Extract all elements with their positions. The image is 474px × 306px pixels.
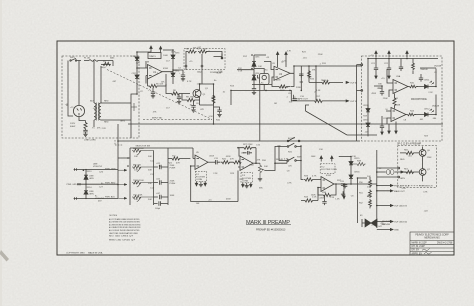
op-amp U3 <box>393 80 408 94</box>
svg-text:PWR. RED: PWR. RED <box>105 183 116 185</box>
ground arrow (C21) <box>375 72 377 79</box>
capacitor C24 <box>374 86 384 96</box>
capacitor C3 (rail) <box>151 88 155 96</box>
svg-text:10K: 10K <box>289 101 293 103</box>
capacitor C22 <box>387 59 391 73</box>
svg-text:OUT A: OUT A <box>350 82 357 85</box>
svg-text:3AG: 3AG <box>110 57 115 60</box>
V+ arrow (U7 a) <box>320 156 322 162</box>
svg-text:SELECTOR SW: SELECTOR SW <box>136 145 151 147</box>
transistor Q7 <box>419 169 426 176</box>
svg-text:MARK III 212P: MARK III 212P <box>412 241 428 244</box>
svg-text:100pf: 100pf <box>155 208 161 210</box>
svg-text:2.2K: 2.2K <box>136 63 141 65</box>
svg-text:47K: 47K <box>200 109 204 111</box>
wire U3 input <box>387 69 393 97</box>
svg-text:1.5K: 1.5K <box>282 60 287 62</box>
feedback loop U5 <box>191 166 238 202</box>
svg-text:100pf: 100pf <box>197 71 203 73</box>
wire U6 output <box>253 162 260 164</box>
wire CR5 rail <box>237 55 266 88</box>
svg-text:OUT JACK A: OUT JACK A <box>394 221 407 224</box>
svg-text:COPYRIGHT 1983 MADE IN US: COPYRIGHT 1983 MADE IN USA <box>66 252 103 255</box>
resistor R34 <box>301 188 321 203</box>
svg-text:RED: RED <box>104 101 109 103</box>
wire xfmr to rectifier taps <box>131 103 137 111</box>
svg-text:CR13: CR13 <box>86 171 92 173</box>
svg-text:CR10: CR10 <box>363 120 369 122</box>
svg-text:PREAMP BD #4150030013: PREAMP BD #4150030013 <box>256 229 286 232</box>
svg-text:100K: 100K <box>311 195 316 197</box>
svg-text:2.2K: 2.2K <box>213 173 218 175</box>
op-amp U4 <box>391 108 406 122</box>
svg-text:1N4148: 1N4148 <box>420 69 428 71</box>
tape out terminal B <box>346 100 349 102</box>
resistor R (line filter) <box>79 116 87 130</box>
resistor R40 <box>408 85 418 88</box>
switch SW2b (boost) <box>287 146 289 148</box>
feedback resistor R36 <box>318 184 336 197</box>
svg-text:BASS 250K: BASS 250K <box>133 147 144 150</box>
wire rectifier rail <box>137 52 151 94</box>
diode CR9 <box>366 109 370 112</box>
svg-text:50K: 50K <box>264 166 268 168</box>
svg-text:220K: 220K <box>383 98 388 100</box>
svg-text:1.5K: 1.5K <box>209 116 214 118</box>
svg-text:2.2K: 2.2K <box>102 128 107 130</box>
svg-text:10K: 10K <box>134 170 138 172</box>
resistor R50 <box>369 177 372 188</box>
ground arrow (C25) <box>381 128 383 135</box>
ground arrow (meter right) <box>395 122 397 134</box>
scan edge shading left <box>0 0 2 306</box>
resistor R10 (rail) <box>212 95 215 104</box>
svg-text:4558: 4558 <box>326 175 332 177</box>
resistor R9 <box>182 94 200 102</box>
svg-text:CH. M. 212P: CH. M. 212P <box>412 246 426 248</box>
wire pot wiper to switch <box>265 146 287 171</box>
svg-text:MID 50K: MID 50K <box>133 165 142 167</box>
wire secondary to rectifier <box>131 94 137 138</box>
transistor Q6 <box>419 150 426 157</box>
svg-text:220K: 220K <box>296 87 302 89</box>
rectifier diode CR2 <box>135 75 139 78</box>
ground (P1) <box>199 182 203 187</box>
svg-text:ALL RESISTORS IN OHMS UNLESS N: ALL RESISTORS IN OHMS UNLESS NOTED <box>109 223 141 226</box>
zener diode CR3 <box>171 55 175 58</box>
svg-text:VIOLET-R: VIOLET-R <box>93 166 103 168</box>
svg-text:1N4148: 1N4148 <box>276 159 284 161</box>
svg-text:MICROPHONE: MICROPHONE <box>411 99 427 101</box>
bus wire lower <box>118 124 360 198</box>
resistor (J1 b) <box>198 50 208 53</box>
power terminal row 1 <box>74 168 118 170</box>
svg-text:FOOTSWITCH: FOOTSWITCH <box>419 185 433 187</box>
junction dots power <box>85 169 86 170</box>
wire plug to switch <box>68 61 79 117</box>
wire LED B <box>415 95 436 115</box>
svg-text:1.5K: 1.5K <box>352 156 357 158</box>
ground (C3) <box>151 96 155 98</box>
capacitor C7b <box>252 88 256 92</box>
svg-text:47K: 47K <box>97 128 101 130</box>
ground (C6) <box>191 110 195 112</box>
power supply dashed enclosure <box>62 56 139 138</box>
capacitor C7 <box>214 107 222 114</box>
transformer secondary wires <box>94 103 131 127</box>
V+ arrow (U2 supply a) <box>276 52 278 67</box>
V+ arrow (U7 b) <box>331 156 333 162</box>
dashed input bd corner <box>115 140 123 145</box>
wire Q1 collector <box>187 84 214 105</box>
ground arrow (mid) <box>343 184 345 199</box>
svg-text:MARK III PREAMP: MARK III PREAMP <box>246 220 290 226</box>
svg-text:50K: 50K <box>148 199 152 201</box>
svg-text:PEAVEY ELECTRONICS CORP: PEAVEY ELECTRONICS CORP <box>415 234 449 237</box>
transformer T1 <box>94 103 96 120</box>
resistor R44 <box>406 113 416 116</box>
V+ arrow (U1 supply) <box>150 46 152 52</box>
scan smudge bottom-left <box>0 250 9 262</box>
connector pins footswitch <box>398 167 400 169</box>
ground arrow (meter mid) <box>388 124 390 134</box>
wire footswitch internal <box>422 147 424 182</box>
svg-text:INPUT BD: INPUT BD <box>152 118 163 120</box>
svg-text:GRN: GRN <box>120 121 125 123</box>
wire regulator output right <box>200 54 223 124</box>
svg-text:SW2: SW2 <box>297 157 302 159</box>
svg-text:1N4148: 1N4148 <box>432 106 440 108</box>
resistor R52 <box>369 199 372 208</box>
capacitor C6 <box>191 102 195 110</box>
dashed diagonal (input board boundary) <box>107 70 212 120</box>
footswitch dashed enclosure <box>398 146 437 188</box>
svg-text:1.5K: 1.5K <box>319 149 324 151</box>
diode CR14 <box>84 191 88 194</box>
regulator box VR1 <box>148 53 161 59</box>
capacitor C15 <box>214 160 221 164</box>
signature squiggles <box>422 249 430 251</box>
svg-text:PWR. GRD: PWR. GRD <box>67 184 78 186</box>
svg-text:MAIN OUT: MAIN OUT <box>394 190 405 193</box>
diode CR6 <box>252 75 256 80</box>
meter board dashed enclosure <box>362 56 443 141</box>
feedback resistor R41 <box>393 94 396 109</box>
connector pins meter <box>361 64 363 66</box>
svg-text:100K: 100K <box>171 52 176 54</box>
svg-text:MERIDIAN MS: MERIDIAN MS <box>424 237 440 240</box>
wire diode clip column <box>339 156 351 184</box>
capacitor C (line) <box>83 130 87 134</box>
wire top row to transformer <box>94 61 113 104</box>
resistor R8 <box>166 84 187 95</box>
out terminal D <box>377 221 393 223</box>
svg-text:R5 10K: R5 10K <box>156 84 164 86</box>
svg-text:4.7K: 4.7K <box>187 81 192 83</box>
ground (P1 pins) <box>195 182 206 186</box>
capacitor C4 <box>173 70 185 79</box>
power terminal row 3 <box>74 197 118 199</box>
capacitor C5 <box>177 94 181 102</box>
svg-text:78M15: 78M15 <box>149 56 156 58</box>
ground (C7b) <box>252 92 256 94</box>
svg-text:47K: 47K <box>312 70 316 72</box>
svg-text:1.5K: 1.5K <box>316 90 321 92</box>
svg-text:GRN: GRN <box>89 194 94 196</box>
power terminal row 2 <box>77 183 118 185</box>
wire bus to footswitch pins <box>377 168 398 177</box>
out terminal B <box>377 190 393 192</box>
relay box K1 <box>260 74 270 85</box>
svg-text:220K: 220K <box>318 54 323 56</box>
wire U7 output <box>334 183 351 185</box>
svg-text:1.5K: 1.5K <box>239 179 244 181</box>
svg-text:120V: 120V <box>70 123 76 125</box>
svg-text:R14 47K: R14 47K <box>280 87 289 89</box>
ground (C4) <box>181 79 185 81</box>
AC plug P1 <box>73 105 84 116</box>
main bus wire <box>128 123 443 125</box>
wire diode column power <box>85 170 87 199</box>
fuse F1 <box>84 60 101 62</box>
wire U4 input <box>386 111 391 124</box>
svg-text:10K: 10K <box>134 199 138 201</box>
LED CR12 <box>425 113 429 117</box>
svg-text:GRN: GRN <box>89 178 94 180</box>
resistor R61 <box>400 170 419 173</box>
LED CR11 <box>425 85 429 89</box>
footswitch connector P1 dashed box <box>195 171 206 181</box>
svg-text:ALL POTS ARE LINEAR UNLESS NOT: ALL POTS ARE LINEAR UNLESS NOTED <box>109 218 140 221</box>
ground (left of R50) <box>341 191 345 196</box>
capacitor C20 <box>343 184 347 188</box>
switch SW2 (bus) <box>287 140 289 142</box>
wire meter left entry <box>357 65 362 141</box>
out terminal E <box>377 229 393 231</box>
EQ row2 pot (MID) <box>132 165 154 171</box>
resistor R39 <box>412 59 415 75</box>
switch SW3 <box>287 160 289 162</box>
wire U2 output <box>290 66 362 101</box>
svg-text:NO. 320 CR16 Q7: NO. 320 CR16 Q7 <box>109 236 133 238</box>
feedback resistor R14 <box>272 73 294 88</box>
V+ arrow (U2 supply b) <box>285 52 287 67</box>
wire U1 input/output <box>146 61 173 84</box>
EQ middle rail <box>153 151 155 206</box>
wire U5 output <box>208 161 214 163</box>
resistor R16 <box>309 81 343 84</box>
capacitor C11 <box>299 74 303 82</box>
svg-text:2.2K: 2.2K <box>428 92 433 94</box>
svg-text:220K: 220K <box>319 197 324 199</box>
svg-text:TAPE A: TAPE A <box>321 79 329 82</box>
EQ ladder left rail <box>118 148 193 205</box>
svg-text:NOTES: NOTES <box>110 215 118 217</box>
sheet border frame <box>57 41 454 255</box>
op-amp U5 <box>195 155 208 170</box>
terminal arrow reverb <box>401 171 404 173</box>
svg-text:1.5K: 1.5K <box>203 48 208 50</box>
svg-text:ALL DIODES 1N4148 UNLESS NOTED: ALL DIODES 1N4148 UNLESS NOTED <box>109 229 140 232</box>
svg-text:100K: 100K <box>249 165 254 167</box>
top rail wire <box>368 59 438 109</box>
svg-text:PUSH: PUSH <box>170 168 176 170</box>
op-amp U1 <box>148 65 163 80</box>
svg-text:CONN: CONN <box>196 179 203 181</box>
svg-text:SP-2 12 BY A PREAMP: SP-2 12 BY A PREAMP <box>397 143 422 146</box>
ground (P3) <box>245 183 249 188</box>
wire U7 to jack rail <box>351 183 377 185</box>
wire U5 input <box>191 159 195 167</box>
svg-text:RED: RED <box>400 159 405 161</box>
svg-text:4558: 4558 <box>163 68 169 70</box>
svg-text:OUT JACK B: OUT JACK B <box>394 205 407 208</box>
svg-text:FOOTSW CONN: FOOTSW CONN <box>321 169 337 171</box>
V+ arrow (meter b) <box>388 51 390 58</box>
resistor R51 <box>369 190 372 199</box>
out terminal A <box>377 185 393 187</box>
resistor (thermal) <box>103 62 111 65</box>
svg-text:PWR. GRN: PWR. GRN <box>105 168 116 170</box>
wire zener rail <box>163 50 173 84</box>
svg-text:4.7K: 4.7K <box>423 191 428 193</box>
capacitor C13 <box>154 180 168 184</box>
svg-text:OUT B: OUT B <box>350 101 357 103</box>
svg-text:LINE CORD: LINE CORD <box>84 140 96 142</box>
svg-text:33K: 33K <box>378 83 382 85</box>
op-amp U2 <box>274 66 290 80</box>
wire to right board <box>231 90 291 105</box>
feedback resistor R27 <box>239 146 256 163</box>
svg-text:1.5K: 1.5K <box>197 84 202 86</box>
resistor R22 <box>168 157 190 160</box>
resistor R26 <box>234 161 242 164</box>
svg-text:10K: 10K <box>367 187 371 189</box>
diagonal wire (tape to bus) <box>306 105 348 135</box>
svg-text:10K: 10K <box>134 183 138 185</box>
svg-text:1N4148: 1N4148 <box>434 66 442 68</box>
svg-text:LAST REF. DESIGNATOR USED: LAST REF. DESIGNATOR USED <box>109 232 139 235</box>
V+ arrow (meter c) <box>406 51 408 58</box>
svg-text:1.5K: 1.5K <box>238 71 243 73</box>
resistor R38 <box>351 162 366 165</box>
wire U2 inputs <box>252 62 274 85</box>
op-amp U7 <box>321 177 334 192</box>
footswitch connector P2 dashed box <box>320 164 335 174</box>
connector pins J1 <box>185 65 187 67</box>
svg-text:1.5K: 1.5K <box>335 199 340 201</box>
svg-text:ALL CAPACITORS IN MFD UNLESS N: ALL CAPACITORS IN MFD UNLESS NOTED <box>109 226 141 229</box>
svg-text:GND: GND <box>394 230 399 232</box>
V+ arrow (U1 supply b) <box>159 47 161 53</box>
reverb transducer <box>365 219 377 227</box>
connector pair circles <box>386 170 390 175</box>
svg-text:4.7K: 4.7K <box>287 183 292 185</box>
svg-text:U4B: U4B <box>396 105 401 107</box>
main vertical bus right <box>376 150 378 228</box>
svg-text:1.5K: 1.5K <box>312 197 317 199</box>
svg-text:50K: 50K <box>148 183 152 185</box>
diode CR15 <box>349 162 353 165</box>
svg-text:220K: 220K <box>427 157 432 159</box>
connector dashed box J1 <box>184 49 225 70</box>
svg-text:SW1: SW1 <box>70 57 75 59</box>
svg-text:DWG # 2-2768: DWG # 2-2768 <box>437 242 453 244</box>
capacitor C21 <box>374 59 378 73</box>
ground (line filter) <box>83 134 87 136</box>
zener diode CR4 <box>171 73 175 76</box>
svg-text:10K: 10K <box>258 66 262 68</box>
dashed input board edge <box>143 119 212 121</box>
svg-text:47K: 47K <box>257 159 261 161</box>
wire switch to U7 <box>301 146 304 180</box>
wire LED A <box>417 68 436 87</box>
capacitor C23 <box>399 59 403 72</box>
volume pot R30 <box>258 163 265 179</box>
switch SW1 <box>71 58 81 60</box>
capacitor C25 <box>380 116 384 128</box>
svg-text:BOOST: BOOST <box>288 138 296 140</box>
diode CR13 <box>84 175 88 179</box>
svg-text:CR12: CR12 <box>424 109 430 111</box>
capacitor C30 (bottom) <box>154 201 168 205</box>
svg-text:ALL RESISTORS 1/4W UNLESS NOTE: ALL RESISTORS 1/4W UNLESS NOTED <box>109 221 141 224</box>
svg-text:VOL 250K: VOL 250K <box>133 195 143 197</box>
capacitor C10 <box>293 95 297 101</box>
EQ row4 pot (VOLUME) <box>132 195 154 201</box>
diode CR10 <box>366 123 370 126</box>
capacitor C29 <box>419 74 423 82</box>
svg-text:60HZ: 60HZ <box>70 126 76 128</box>
diode CR16 <box>349 175 353 178</box>
ground (C7) <box>217 115 221 117</box>
resistor R25 <box>221 161 234 164</box>
capacitor C14 <box>154 195 168 199</box>
resistor R17 <box>291 99 346 102</box>
svg-text:APPR. BY: APPR. BY <box>412 252 423 255</box>
ground (C5) <box>177 102 181 104</box>
svg-text:4.7K: 4.7K <box>287 50 292 52</box>
capacitor C19 <box>322 195 326 205</box>
notes block <box>109 215 141 241</box>
svg-text:R86 C30 CR16 Q7: R86 C30 CR16 Q7 <box>109 239 135 241</box>
svg-text:50K: 50K <box>148 170 152 172</box>
svg-text:47K: 47K <box>193 47 197 49</box>
title block <box>410 232 454 255</box>
resistor R60 <box>400 151 419 154</box>
resistor R33 <box>304 178 321 181</box>
svg-text:PUSH: PUSH <box>170 183 176 185</box>
EQ row3 pot (TREBLE) <box>132 181 154 187</box>
svg-text:100K: 100K <box>311 156 316 158</box>
ground arrow (C22) <box>388 72 390 79</box>
svg-text:220K: 220K <box>378 88 383 90</box>
svg-text:CR16: CR16 <box>354 172 360 174</box>
dashed link footswitch stub <box>408 185 424 187</box>
wire junction dots <box>136 51 138 53</box>
svg-text:100pf: 100pf <box>100 67 106 69</box>
svg-text:4.7K: 4.7K <box>312 176 317 178</box>
resistor R18 <box>308 70 311 79</box>
svg-text:50K: 50K <box>148 156 152 158</box>
svg-text:F1 2A: F1 2A <box>84 57 90 60</box>
svg-text:BLK: BLK <box>90 101 95 103</box>
wire relay <box>254 69 264 142</box>
feedback resistor R5 <box>148 74 167 88</box>
wire bus corner right <box>347 134 377 136</box>
op-amp U6 <box>240 156 253 171</box>
ground (P3 pins) <box>242 183 252 187</box>
